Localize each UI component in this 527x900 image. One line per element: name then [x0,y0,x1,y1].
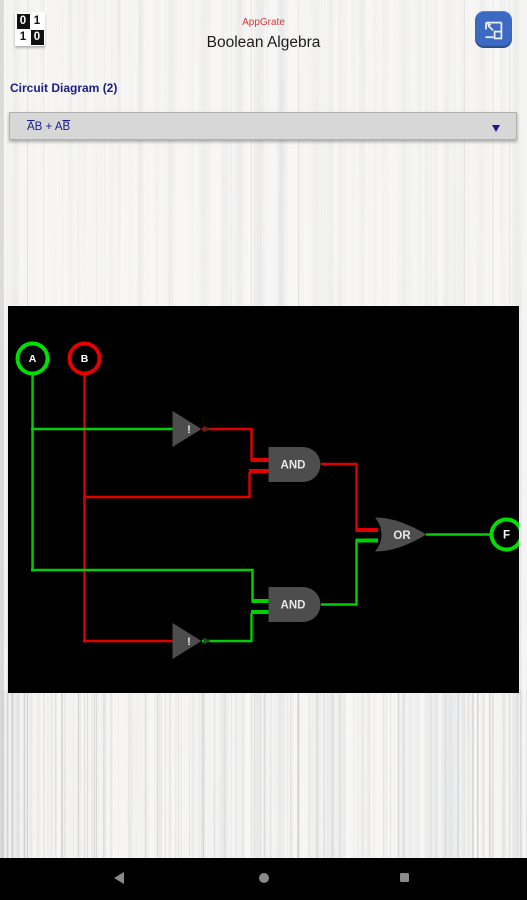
svg-text:A: A [29,353,37,365]
svg-text:!: ! [187,636,191,648]
svg-text:OR: OR [393,530,411,542]
svg-text:F: F [503,530,510,542]
svg-text:!: ! [187,424,191,436]
svg-text:B: B [81,353,89,365]
svg-text:AND: AND [281,460,306,472]
svg-text:AND: AND [281,600,306,612]
